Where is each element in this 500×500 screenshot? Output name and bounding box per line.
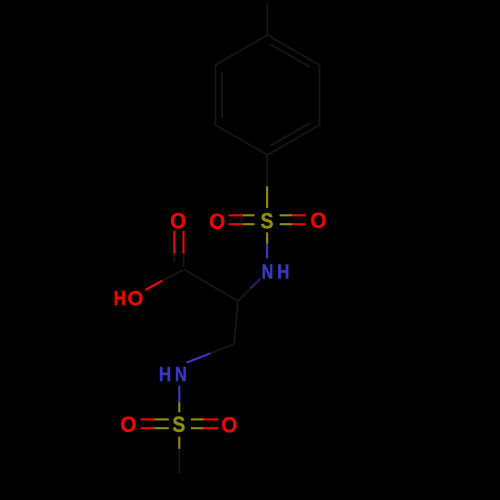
svg-text:H: H bbox=[114, 287, 126, 310]
atom O (right of S2) bbox=[221, 413, 237, 438]
wire: C1 to C2 (dim) bbox=[184, 270, 238, 302]
S1=O left double bond bbox=[229, 215, 255, 224]
atom N1 (NH) bbox=[261, 260, 273, 283]
svg-text:O: O bbox=[170, 209, 186, 234]
svg-text:O: O bbox=[127, 287, 143, 310]
svg-text:O: O bbox=[310, 209, 326, 234]
wire: ring C to S1, carbon half (dim) bbox=[266, 155, 268, 186]
svg-text:S: S bbox=[172, 413, 185, 437]
S2=O left double bond bbox=[141, 419, 169, 428]
C1=O double bond bbox=[174, 231, 183, 267]
wire: N1 to C2, C half (dim) bbox=[238, 289, 251, 302]
S2=O right double bond bbox=[191, 419, 218, 428]
wire: HO to C1, O half (red) bbox=[145, 281, 162, 290]
wire: N2 to S2 bbox=[178, 385, 180, 402]
atom O carbonyl bbox=[170, 209, 186, 234]
wire: ring C to S1, S half (olive) bbox=[266, 186, 268, 208]
svg-text:H: H bbox=[159, 363, 171, 386]
wire: N1 to C2, N half (dim blue) bbox=[251, 279, 261, 289]
atom S1 bbox=[260, 209, 273, 233]
svg-text:N: N bbox=[175, 362, 187, 385]
wire: C2 to C3 (dim) bbox=[234, 301, 238, 344]
atom N2 (HN) bbox=[159, 363, 171, 386]
wire: S2 to CH3, C half (dim) bbox=[178, 449, 180, 474]
svg-text:H: H bbox=[277, 260, 289, 283]
atom S2 bbox=[172, 413, 185, 437]
atom O (right of S1) bbox=[310, 209, 326, 234]
svg-text:O: O bbox=[120, 413, 136, 438]
benzene ring (dim) bbox=[215, 35, 319, 155]
svg-text:O: O bbox=[209, 210, 225, 235]
methyl stub above ring (dim) bbox=[266, 3, 268, 35]
svg-text:S: S bbox=[260, 209, 273, 233]
wire: S2 to CH3, S half (olive) bbox=[178, 437, 180, 449]
svg-text:O: O bbox=[221, 413, 237, 438]
wire: HO to C1, C half (dim) bbox=[163, 270, 184, 281]
atom O (left of S2) bbox=[120, 413, 136, 438]
wire: C3 to N2, C half (dim) bbox=[210, 344, 234, 353]
atom O (left of S1) bbox=[209, 210, 225, 235]
S1=O right double bond bbox=[280, 215, 306, 224]
svg-text:N: N bbox=[261, 260, 273, 283]
wire: C3 to N2, N half (blue) bbox=[187, 353, 211, 362]
atom HO (hydroxyl) bbox=[114, 287, 126, 310]
wire: S1 to N1 bbox=[266, 232, 268, 243]
